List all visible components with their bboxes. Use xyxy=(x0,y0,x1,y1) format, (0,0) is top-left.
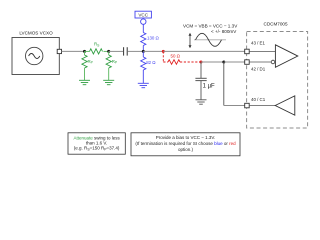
ground (green, node A shunt) xyxy=(79,80,90,84)
wire: node C to node D xyxy=(143,50,163,52)
annotation: VCM formula xyxy=(183,23,238,34)
wire: node D down (red dashed) xyxy=(162,51,164,62)
VCC power symbol xyxy=(135,11,151,32)
svg-text:Provide a bias to VCC − 1.3V.: Provide a bias to VCC − 1.3V. xyxy=(156,135,216,140)
wire: node F to pin 42/D1 xyxy=(224,61,245,63)
svg-text:(If termination is required fo: (If termination is required for SI choos… xyxy=(135,141,236,146)
ground (green, node B shunt) xyxy=(103,80,114,84)
pin of VCXO output xyxy=(57,49,61,53)
wire: pin 40/C1 to output buffer xyxy=(249,105,275,107)
svg-text:RS: RS xyxy=(94,42,100,48)
pin 40/C1 xyxy=(245,97,266,108)
svg-text:LVCMOS VCXO: LVCMOS VCXO xyxy=(19,31,53,36)
note box 1: attenuate swing xyxy=(68,133,125,154)
node F junction xyxy=(222,61,225,64)
node B junction xyxy=(107,50,110,53)
pin 43/E1 xyxy=(245,41,266,54)
wire: pin 42/D1 to buffer (inverting) xyxy=(249,61,271,63)
resistor 50 Ohm (red) xyxy=(168,53,181,64)
ground (bypass capacitor) xyxy=(196,100,207,104)
svg-text:VCC: VCC xyxy=(138,13,148,18)
svg-text:(e.g. RS=150 RP=37.4): (e.g. RS=150 RP=37.4) xyxy=(74,146,120,152)
wire: VCXO pin to node A xyxy=(62,50,85,52)
pin 42/D1 xyxy=(245,60,266,72)
svg-text:130 Ω: 130 Ω xyxy=(147,36,160,41)
op-amp input buffer (differential) xyxy=(271,45,298,68)
svg-text:option.): option.) xyxy=(178,147,194,152)
svg-text:< +/- 800mV: < +/- 800mV xyxy=(211,29,237,34)
svg-text:RP: RP xyxy=(112,59,118,65)
capacitor 1 uF (bypass) xyxy=(195,62,215,100)
output buffer (points left) xyxy=(275,96,295,115)
wire: 50 Ohm to node E (red dashed) xyxy=(180,61,201,63)
svg-text:42 / D1: 42 / D1 xyxy=(251,66,266,71)
resistor 82 Ohm (pull-down, blue) xyxy=(141,51,157,83)
wire: capacitor to node C xyxy=(128,50,144,52)
resistor 130 Ohm (pull-up, blue) xyxy=(141,33,160,52)
IC U2 CDCM7005 (dashed outline) xyxy=(247,22,308,129)
resistor RS (series) xyxy=(85,42,109,54)
node D junction (red tap) xyxy=(162,50,165,53)
ground (blue, divider) xyxy=(138,83,149,87)
svg-text:82 Ω: 82 Ω xyxy=(146,60,156,65)
svg-text:CDCM7005: CDCM7005 xyxy=(264,22,288,27)
node A junction xyxy=(83,50,86,53)
capacitor C1 (AC coupling, series) xyxy=(124,47,128,55)
node C junction xyxy=(142,50,145,53)
annotation: sine wave xyxy=(194,33,226,46)
resistor RP1 (shunt at node A) xyxy=(82,51,94,80)
svg-text:50 Ω: 50 Ω xyxy=(171,53,181,58)
wire: pin 43/E1 to buffer xyxy=(249,50,275,52)
svg-text:1 µF: 1 µF xyxy=(203,84,215,90)
wire: node D to pin 43/E1 (top) xyxy=(163,50,244,52)
resistor RP2 (shunt at node B) xyxy=(106,51,118,80)
note box 2: bias note xyxy=(131,133,240,156)
svg-text:RP: RP xyxy=(88,59,94,65)
oscillator U1 LVCMOS VCXO xyxy=(12,31,59,75)
annotation: swing arrow xyxy=(189,33,192,48)
svg-text:VCM = VBB = VCC − 1.3V: VCM = VBB = VCC − 1.3V xyxy=(183,23,238,28)
svg-text:43 / E1: 43 / E1 xyxy=(251,41,265,46)
node E junction (red) xyxy=(200,61,203,64)
wire: node E to node F xyxy=(201,61,224,63)
svg-text:40 / C1: 40 / C1 xyxy=(251,97,266,102)
wire: node B to coupling capacitor xyxy=(109,50,123,52)
wire: red dashed to 50 Ohm xyxy=(163,61,168,63)
wire: node F down to pin 40/C1 xyxy=(224,62,245,106)
